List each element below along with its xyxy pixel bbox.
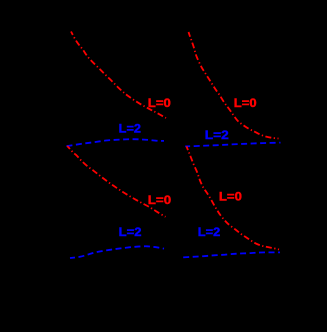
svg-text:L=0: L=0: [234, 96, 257, 110]
svg-text:L=2: L=2: [119, 225, 142, 239]
svg-text:L=0: L=0: [148, 96, 171, 110]
curve L=2 top-right (blue dashed): [185, 143, 280, 147]
curve L=2 top-left (blue dashed): [67, 139, 165, 146]
curve L=2 bottom-left (blue dashed): [70, 246, 164, 258]
svg-text:L=0: L=0: [219, 189, 242, 203]
svg-text:L=2: L=2: [119, 122, 142, 136]
curve L=2 bottom-right (blue dashed): [183, 252, 280, 257]
curve L=0 bottom-right (red dash-dot): [187, 146, 280, 249]
curve L=0 top-right (red dash-dot): [189, 32, 279, 139]
svg-text:L=2: L=2: [198, 225, 221, 239]
curve L=0 bottom-left (red dash-dot): [67, 146, 165, 217]
svg-text:L=2: L=2: [205, 128, 229, 142]
curve L=0 top-left (red dash-dot): [71, 32, 166, 119]
svg-text:L=0: L=0: [148, 193, 172, 207]
